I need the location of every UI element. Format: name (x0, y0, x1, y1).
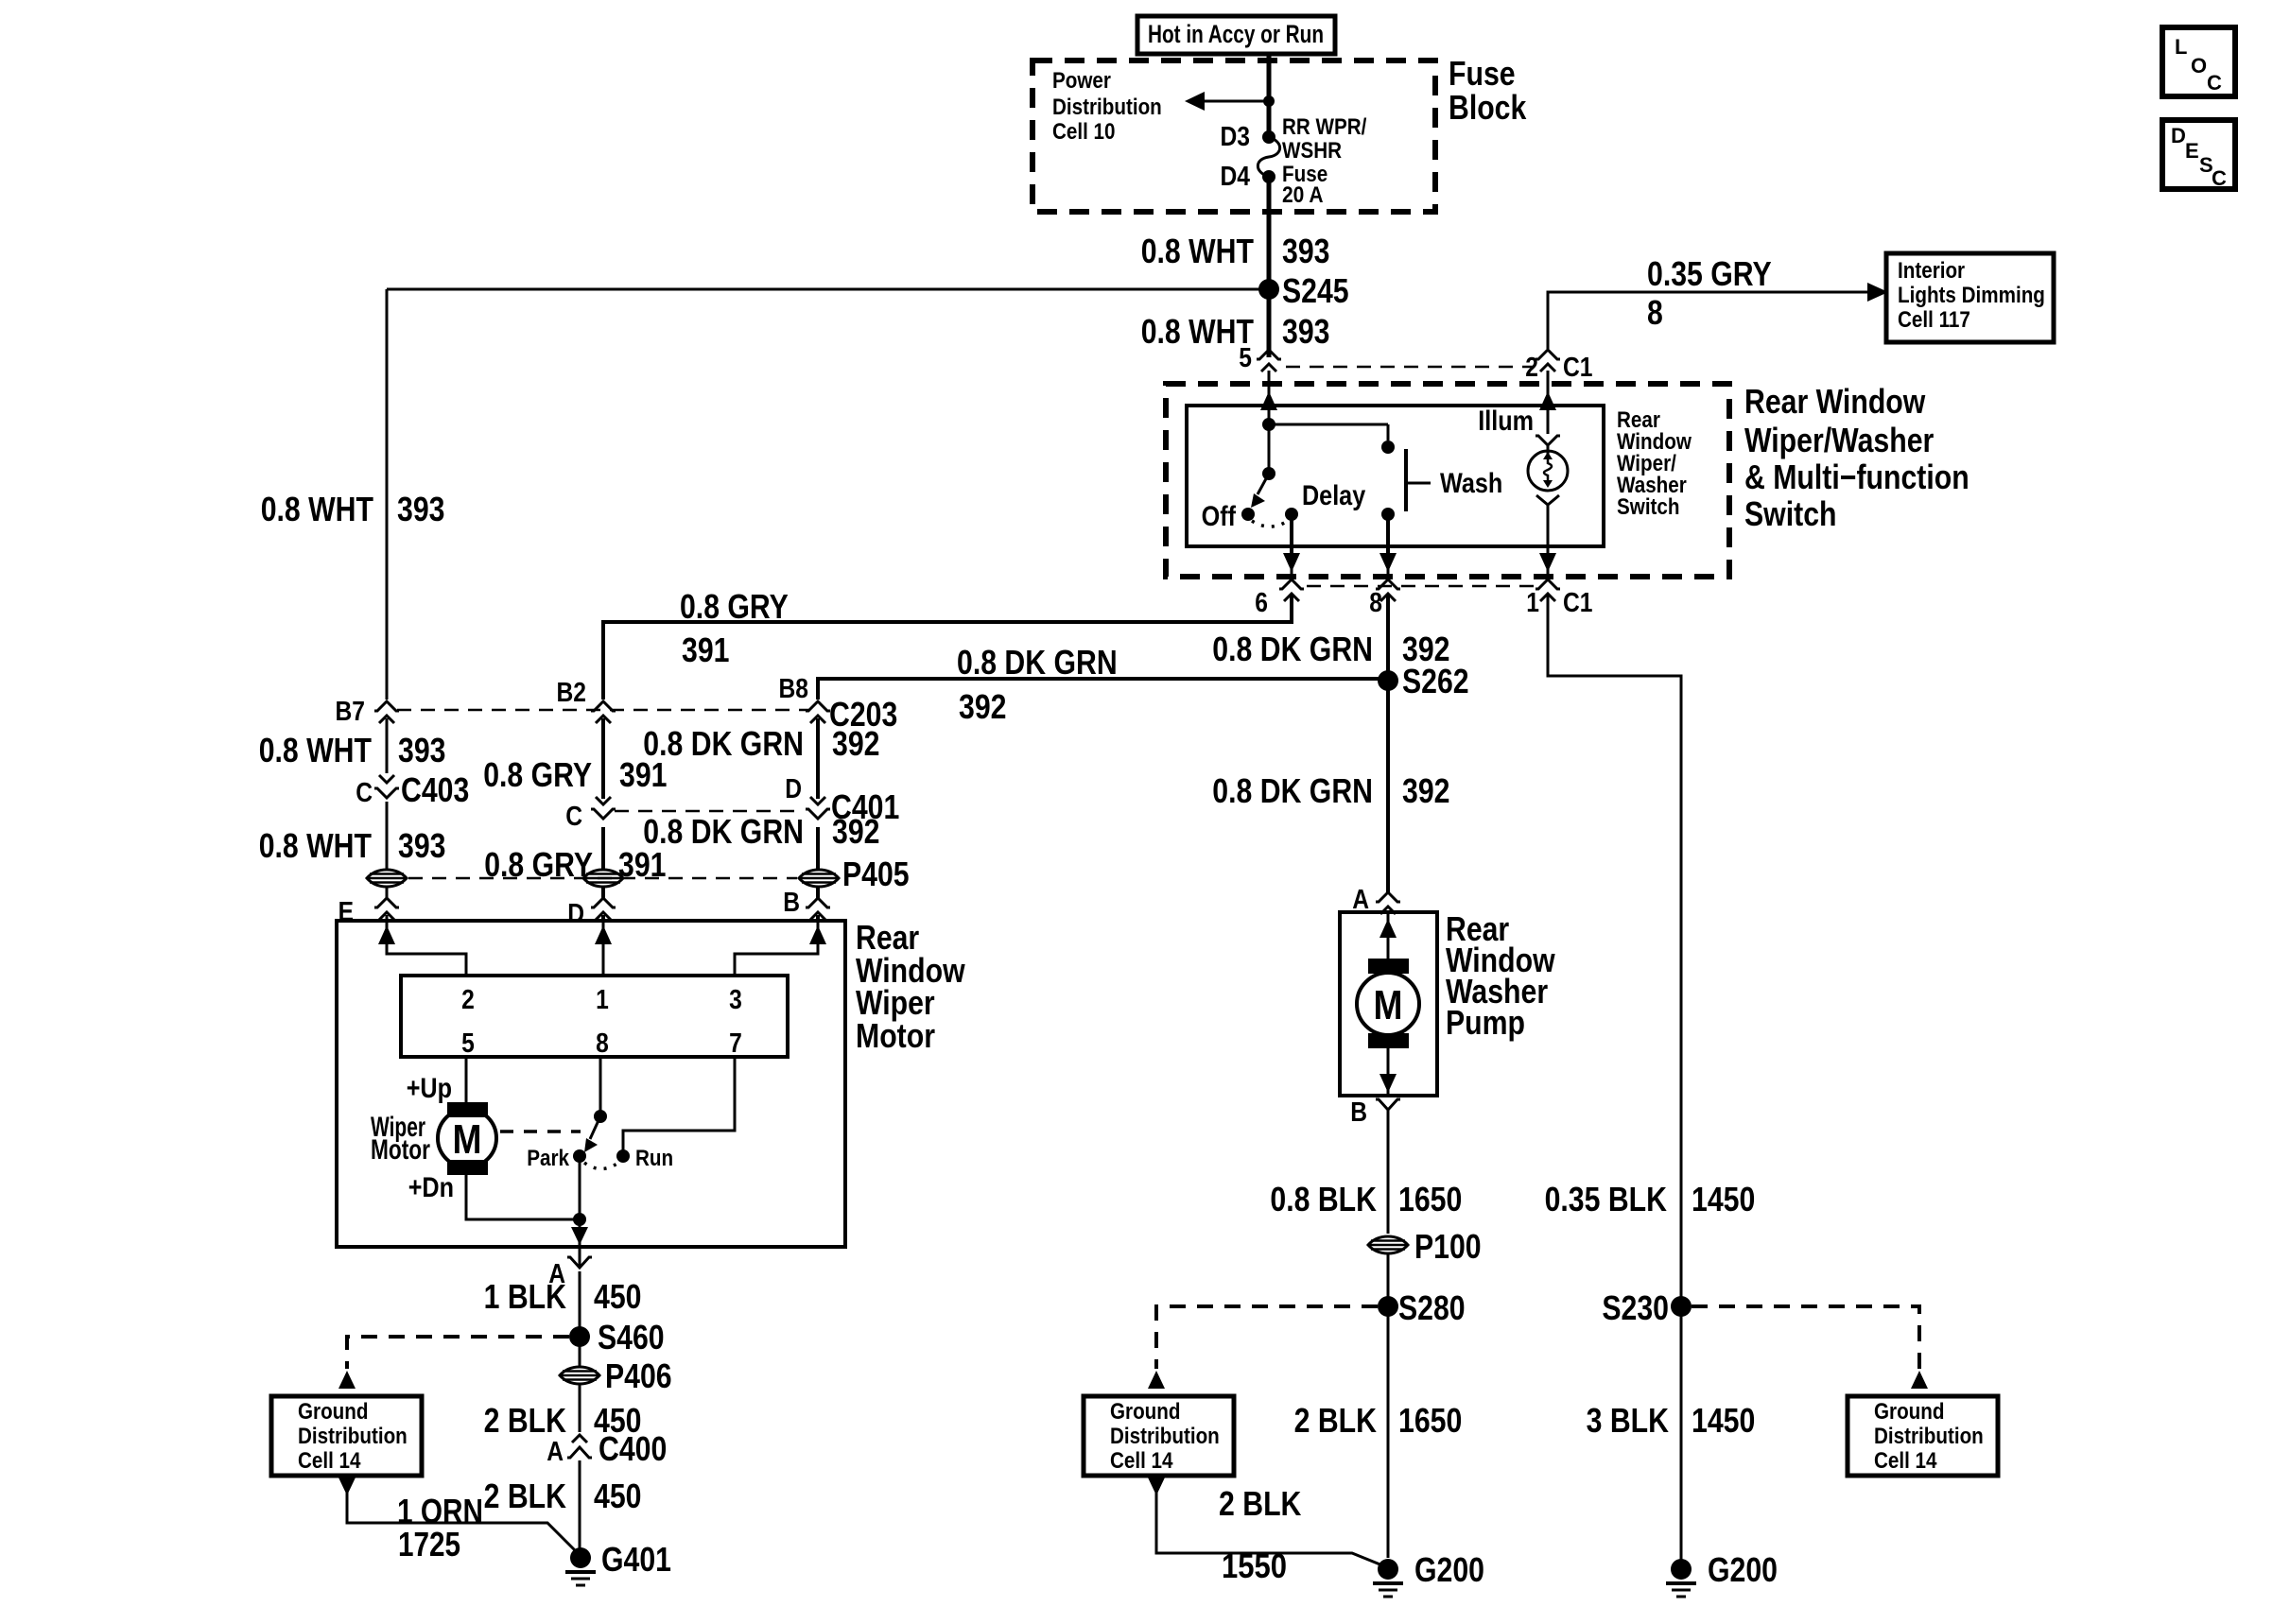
wire pin1 C1 down and right (1548, 596, 1681, 1564)
svg-text:P100: P100 (1414, 1227, 1482, 1266)
wire: pin2 up and right to interior lights (1548, 292, 1877, 349)
wire label 0.8 WHT 393 (C403 to P405) (259, 826, 446, 865)
svg-text:0.8 WHT: 0.8 WHT (259, 826, 372, 865)
svg-text:0.8 DK GRN: 0.8 DK GRN (643, 812, 804, 851)
svg-text:B: B (783, 888, 800, 918)
connector C1 dashed line (top) (1286, 366, 1534, 369)
dotted throw arc off-delay (1252, 521, 1288, 527)
arrowhead up to S460 dashed (338, 1371, 356, 1389)
svg-text:2: 2 (1525, 353, 1538, 383)
pin B8 connector chevron (806, 701, 830, 799)
svg-text:D3: D3 (1221, 122, 1251, 152)
svg-text:D: D (567, 899, 584, 929)
park switch arm with arrowhead (584, 1116, 600, 1152)
in-line connector C400 (567, 1435, 592, 1558)
pin C connector chevron (C401 left) (591, 797, 616, 870)
svg-text:0.8 WHT: 0.8 WHT (1141, 232, 1254, 270)
svg-text:Delay: Delay (1302, 480, 1365, 511)
wire 0.8 GRY from pin6 to B2 (603, 622, 1292, 700)
arrowhead up to S230 dashed (1911, 1371, 1928, 1389)
svg-text:C1: C1 (1563, 353, 1593, 383)
svg-text:G200: G200 (1708, 1550, 1778, 1589)
svg-text:D: D (785, 774, 802, 804)
switch name inside box (1617, 407, 1692, 520)
fuse block dashed box (1032, 60, 1435, 212)
splice S262 (1378, 662, 1469, 700)
pin B2 connector chevron (591, 701, 616, 799)
wire: main feed from hot box through fuse (1267, 54, 1272, 357)
dashed wire S460 to ground distribution (347, 1337, 569, 1369)
connector C203 label (829, 695, 897, 763)
svg-text:8: 8 (1369, 588, 1382, 618)
svg-text:C1: C1 (1563, 588, 1593, 618)
svg-text:B2: B2 (557, 678, 587, 708)
wire P405 to motor pin D (601, 887, 605, 898)
wire label 2 BLK 450 (upper) (484, 1401, 642, 1440)
svg-text:392: 392 (832, 812, 880, 851)
power tag box: Hot in Accy or Run (1137, 16, 1335, 54)
fuse value label (1282, 114, 1367, 208)
arrowhead down from middle ground box (1148, 1477, 1165, 1495)
svg-text:450: 450 (594, 1477, 642, 1515)
svg-text:Motor: Motor (856, 1016, 935, 1055)
wiper motor M (438, 1102, 496, 1175)
wire pin2/C1 into lamp with arrow (1539, 371, 1556, 434)
splice S280 (1378, 1288, 1466, 1327)
svg-text:Switch: Switch (1617, 494, 1680, 520)
wire into pump with arrow (1379, 912, 1397, 959)
svg-text:Cell 10: Cell 10 (1052, 119, 1116, 145)
wire label 2 BLK 1650 (1294, 1401, 1463, 1440)
svg-text:C: C (356, 778, 373, 808)
wire S280 to G200 (1387, 1306, 1390, 1558)
svg-text:3: 3 (729, 985, 742, 1015)
arrowhead up to S280 dashed (1148, 1371, 1165, 1389)
wire S460 to P406 (579, 1337, 581, 1367)
svg-text:Run: Run (635, 1146, 673, 1171)
svg-text:393: 393 (1282, 232, 1330, 270)
svg-text:E: E (338, 897, 354, 927)
svg-text:392: 392 (959, 687, 1007, 726)
svg-text:+Up: +Up (407, 1073, 452, 1104)
svg-text:A: A (547, 1437, 564, 1467)
wire label 0.8 WHT 393 (above S245) (1141, 232, 1330, 270)
svg-text:D4: D4 (1221, 162, 1251, 192)
wire label 1 ORN 1725 (397, 1492, 483, 1564)
svg-text:C: C (565, 802, 582, 832)
svg-text:2: 2 (461, 985, 475, 1015)
connector C203 dashed line (397, 709, 808, 712)
pin D connector chevron (motor) (591, 898, 616, 921)
wire label 0.8 DK GRN 392 (pump feed) (1212, 771, 1449, 810)
lamp bottom connector chevron (1536, 495, 1559, 505)
wire pin8 down to S262 (1386, 596, 1390, 681)
DESC box (2162, 120, 2235, 190)
svg-text:0.8 BLK: 0.8 BLK (1270, 1180, 1377, 1218)
svg-text:20 A: 20 A (1282, 182, 1324, 208)
rear window wiper motor box (337, 921, 845, 1247)
svg-text:G401: G401 (601, 1540, 671, 1579)
svg-text:B: B (1350, 1097, 1367, 1128)
wire label 2 BLK 450 (lower) (484, 1477, 642, 1515)
svg-text:3 BLK: 3 BLK (1587, 1401, 1669, 1440)
ground distribution cell 14 box (middle) (1084, 1396, 1234, 1476)
svg-text:Distribution: Distribution (1052, 95, 1162, 120)
wire label 0.35 GRY 8 (1647, 254, 1772, 332)
svg-text:S262: S262 (1402, 662, 1469, 700)
interior lights dimming cell 117 box (1886, 253, 2054, 342)
wire label 0.8 GRY 391 (top run) (680, 587, 789, 669)
fuse block label (1449, 54, 1527, 127)
svg-text:0.8 GRY: 0.8 GRY (483, 755, 592, 794)
ground distribution cell 14 box (left) (271, 1396, 422, 1476)
svg-text:8: 8 (1647, 293, 1663, 332)
svg-text:Ground: Ground (298, 1399, 369, 1425)
svg-text:1650: 1650 (1398, 1180, 1462, 1218)
run contact (616, 1146, 673, 1171)
svg-text:Cell 117: Cell 117 (1898, 307, 1970, 333)
LOC box (2162, 27, 2235, 96)
svg-text:0.35 BLK: 0.35 BLK (1545, 1180, 1667, 1218)
wire: S245 branch to left (387, 288, 1269, 291)
wire junction out of motor box with arrow (571, 1219, 588, 1267)
pin 6 connector chevron (1279, 579, 1304, 624)
lamp connector chevrons (1536, 436, 1560, 455)
svg-text:1 BLK: 1 BLK (484, 1277, 566, 1316)
svg-text:Rear Window: Rear Window (1744, 382, 1926, 421)
wire motor to park junction (466, 1175, 580, 1219)
svg-text:B8: B8 (779, 674, 809, 704)
splice S245 (1258, 271, 1349, 310)
grommet P405 (middle) (583, 870, 623, 887)
svg-text:391: 391 (619, 755, 668, 794)
delay contact (1285, 480, 1365, 521)
svg-text:5: 5 (461, 1028, 475, 1059)
svg-text:C: C (2207, 71, 2222, 95)
left feed wire down from S245 branch (386, 289, 389, 700)
park contact (527, 1146, 586, 1171)
svg-text:Cell 14: Cell 14 (1110, 1448, 1173, 1474)
svg-text:Distribution: Distribution (1110, 1424, 1220, 1449)
svg-text:Ground: Ground (1874, 1399, 1945, 1425)
svg-text:Block: Block (1449, 88, 1527, 127)
svg-text:393: 393 (397, 490, 445, 528)
pin 1 connector chevron (1536, 579, 1560, 601)
ground G200 (right) (1666, 1550, 1778, 1597)
svg-text:0.8 DK GRN: 0.8 DK GRN (957, 643, 1118, 682)
grommet P405 dashed line (408, 877, 797, 880)
svg-text:Off: Off (1202, 501, 1237, 532)
svg-text:1450: 1450 (1692, 1180, 1755, 1218)
wire pump motor to pin B with arrow (1379, 1048, 1397, 1096)
wire 0.8 DK GRN from B8 to S262 (818, 679, 1388, 700)
wire pin8 to park pivot (599, 1057, 602, 1116)
switch wiper arm feed node (1262, 418, 1388, 480)
wire label 0.8 WHT 393 (below S245) (1141, 312, 1330, 351)
svg-text:1450: 1450 (1692, 1401, 1755, 1440)
svg-text:C400: C400 (599, 1429, 667, 1468)
svg-text:Pump: Pump (1446, 1003, 1525, 1042)
splice S230 (1602, 1288, 1692, 1327)
wire P405 to motor pin E (386, 887, 389, 898)
grommet P405 (right) (799, 870, 839, 887)
svg-text:P405: P405 (842, 855, 910, 893)
svg-text:450: 450 (594, 1277, 642, 1316)
svg-text:7: 7 (729, 1028, 742, 1059)
svg-text:392: 392 (1402, 771, 1450, 810)
pin A connector chevron (pump) (1376, 892, 1400, 914)
svg-text:P406: P406 (605, 1356, 672, 1395)
wire label 0.8 GRY 391 (C to P405) (484, 845, 666, 884)
wire pin7 to run contact (623, 1057, 735, 1156)
arrowhead down from ground box (338, 1477, 356, 1495)
pin B connector chevron (pump) (1376, 1099, 1400, 1234)
svg-text:Cell 14: Cell 14 (1874, 1448, 1937, 1474)
svg-text:Wiper/Washer: Wiper/Washer (1744, 421, 1934, 459)
wire label 0.8 GRY 391 (B2 to C) (483, 755, 667, 794)
in-line connector C403 (374, 775, 399, 870)
svg-text:0.8 GRY: 0.8 GRY (680, 587, 789, 626)
svg-text:Distribution: Distribution (298, 1424, 408, 1449)
mechanical dashed link motor to park arm (500, 1130, 581, 1133)
svg-text:1: 1 (1526, 588, 1539, 618)
svg-text:2 BLK: 2 BLK (484, 1477, 566, 1515)
svg-text:1: 1 (596, 985, 609, 1015)
washer pump motor M (1357, 959, 1419, 1048)
wire label 0.8 DK GRN 392 (above S262) (1212, 630, 1449, 668)
power distribution cell 10 label (1052, 68, 1162, 145)
ground distribution cell 14 box (right) (1848, 1396, 1998, 1476)
svg-text:393: 393 (398, 826, 446, 865)
connector C401 label (831, 787, 899, 851)
wire P405 to motor pin B (816, 887, 820, 898)
svg-text:S280: S280 (1398, 1288, 1466, 1327)
wash switch contacts (1381, 441, 1502, 521)
wire label 0.8 DK GRN 392 (B8 run) (957, 643, 1118, 726)
svg-text:6: 6 (1255, 588, 1268, 618)
svg-text:Ground: Ground (1110, 1399, 1181, 1425)
svg-text:Distribution: Distribution (1874, 1424, 1984, 1449)
wire S262 down to washer pump (1386, 681, 1390, 892)
svg-text:393: 393 (1282, 312, 1330, 351)
svg-text:1725: 1725 (398, 1525, 460, 1564)
svg-text:L: L (2175, 35, 2187, 59)
grommet P100 (1368, 1227, 1482, 1266)
svg-text:E: E (2185, 139, 2199, 163)
wire label 3 BLK 1450 (1587, 1401, 1756, 1440)
svg-text:C403: C403 (401, 770, 469, 809)
wire P100 to S280 (1387, 1253, 1390, 1306)
svg-text:Wash: Wash (1440, 468, 1502, 499)
svg-text:1550: 1550 (1222, 1546, 1287, 1585)
pin B connector chevron (motor) (806, 898, 830, 921)
switch movable arm with arrowhead (1251, 474, 1269, 508)
svg-text:2 BLK: 2 BLK (484, 1401, 566, 1440)
wire lamp down to pin 1 (1539, 505, 1556, 580)
svg-text:M: M (1374, 982, 1403, 1028)
svg-text:Interior: Interior (1898, 258, 1965, 284)
svg-text:0.8 DK GRN: 0.8 DK GRN (643, 724, 804, 763)
ground G401 (565, 1540, 671, 1585)
svg-text:S230: S230 (1602, 1288, 1669, 1327)
off contact (1202, 501, 1255, 532)
connector C1 dashed line (bottom) (1307, 585, 1534, 588)
wire label 0.8 WHT 393 (left drop) (261, 490, 445, 528)
rear window washer pump box (1340, 912, 1437, 1096)
svg-text:Fuse: Fuse (1449, 54, 1516, 93)
svg-text:Lights Dimming: Lights Dimming (1898, 283, 2045, 308)
svg-text:O: O (2191, 54, 2207, 78)
wire wash contact down to pin 8 (1379, 514, 1397, 580)
connector C401 dashed line (615, 810, 804, 813)
switch inner box (1187, 406, 1604, 546)
motor box label (856, 918, 965, 1055)
svg-text:Power: Power (1052, 68, 1111, 94)
park arm pivot (594, 1110, 607, 1123)
pin 2 connector chevron (1536, 350, 1560, 371)
svg-text:8: 8 (596, 1028, 609, 1059)
pin 5 connector chevron (1257, 350, 1281, 371)
wire ground box to G200 (left) (1156, 1492, 1387, 1567)
svg-text:Cell 14: Cell 14 (298, 1448, 361, 1474)
switch title outside (1744, 382, 1969, 533)
wire label 2 BLK 1550 (1219, 1484, 1301, 1585)
pin B7 connector chevron (374, 701, 399, 773)
svg-text:& Multi−function: & Multi−function (1744, 458, 1969, 496)
dotted throw arc park-run (584, 1163, 618, 1169)
dashed wire S280 to ground distribution (1156, 1306, 1378, 1369)
svg-text:1650: 1650 (1398, 1401, 1462, 1440)
svg-text:WSHR: WSHR (1282, 138, 1342, 164)
svg-text:0.8 DK GRN: 0.8 DK GRN (1212, 771, 1373, 810)
wire pin5 into switch with arrow (1260, 371, 1277, 424)
wire label 0.35 BLK 1450 (1545, 1180, 1756, 1218)
grommet P405 (left) (367, 870, 407, 887)
ground G200 (left) (1373, 1550, 1484, 1597)
wire delay contact down to pin 6 (1283, 514, 1300, 580)
wire pin5 to wiper motor (465, 1057, 468, 1102)
grommet P406 (560, 1356, 672, 1395)
svg-text:Motor: Motor (371, 1134, 430, 1166)
wire park contact down to junction (579, 1156, 581, 1219)
wire ground box to G401 (347, 1492, 581, 1556)
svg-text:0.8 WHT: 0.8 WHT (1141, 312, 1254, 351)
pin A connector chevron (motor out) (567, 1257, 592, 1332)
svg-text:Hot in Accy or Run: Hot in Accy or Run (1148, 20, 1324, 48)
svg-text:0.35 GRY: 0.35 GRY (1647, 254, 1772, 293)
svg-text:Park: Park (527, 1146, 569, 1171)
svg-text:2 BLK: 2 BLK (1219, 1484, 1301, 1523)
svg-text:393: 393 (398, 731, 446, 769)
svg-text:D: D (2171, 124, 2186, 147)
dashed wire S230 to ground distribution (1692, 1306, 1919, 1369)
svg-text:0.8 DK GRN: 0.8 DK GRN (1212, 630, 1373, 668)
wire B into connector pin 3 (735, 921, 826, 976)
svg-text:C: C (2212, 166, 2227, 190)
svg-text:S245: S245 (1282, 271, 1349, 310)
wire P406 to C400 (579, 1384, 581, 1432)
pin D connector chevron (C401 right) (806, 797, 830, 870)
wire: arrow to power distribution (1185, 92, 1275, 111)
svg-text:392: 392 (832, 724, 880, 763)
svg-text:M: M (453, 1116, 482, 1163)
svg-text:RR WPR/: RR WPR/ (1282, 114, 1367, 140)
svg-text:391: 391 (682, 631, 730, 669)
motor connector box (401, 976, 788, 1057)
splice S460 (569, 1318, 665, 1356)
illumination lamp (1528, 451, 1568, 491)
wire label 0.8 BLK 1650 (1270, 1180, 1462, 1218)
svg-text:0.8 WHT: 0.8 WHT (259, 731, 372, 769)
arrowhead into interior lights box (1867, 283, 1888, 302)
svg-text:B7: B7 (336, 697, 366, 727)
svg-text:G200: G200 (1414, 1550, 1484, 1589)
junction node (573, 1213, 586, 1226)
pin E connector chevron (374, 898, 399, 921)
svg-text:5: 5 (1239, 343, 1252, 373)
svg-text:+Dn: +Dn (408, 1172, 454, 1203)
wire label 1 BLK 450 (484, 1277, 642, 1316)
svg-text:2 BLK: 2 BLK (1294, 1401, 1377, 1440)
svg-text:0.8 WHT: 0.8 WHT (261, 490, 373, 528)
svg-text:Switch: Switch (1744, 494, 1837, 533)
svg-text:Illum: Illum (1478, 406, 1534, 437)
pin 8 connector chevron (1376, 579, 1400, 601)
wiper motor label (371, 1112, 430, 1166)
rear window wiper/washer switch dashed box (1166, 384, 1729, 577)
wire D into connector pin 1 (595, 921, 612, 976)
fuse RR WPR/WSHR 20A between D3 and D4 (1258, 130, 1279, 183)
svg-text:S460: S460 (598, 1318, 665, 1356)
pump label (1446, 909, 1555, 1042)
wire label 0.8 WHT 393 (B7 to C403) (259, 731, 446, 769)
wire E into connector pin 2 (378, 921, 466, 976)
